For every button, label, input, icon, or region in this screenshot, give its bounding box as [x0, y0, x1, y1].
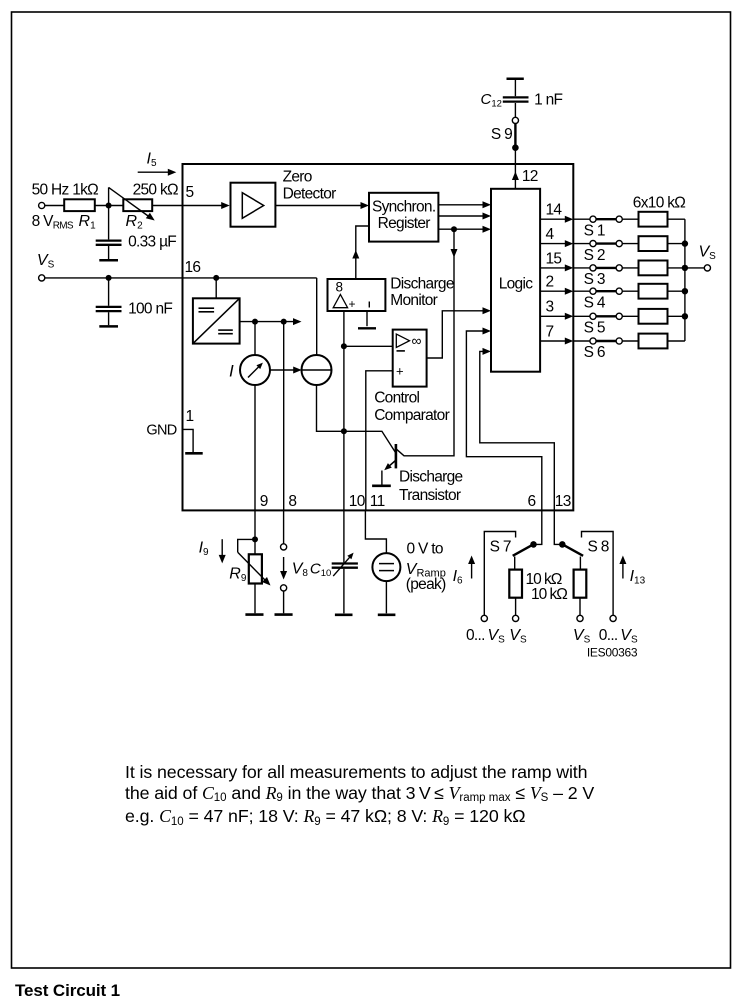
svg-text:I: I — [229, 362, 234, 381]
svg-text:7: 7 — [546, 323, 554, 340]
svg-text:13: 13 — [555, 493, 571, 510]
svg-text:Control: Control — [374, 389, 419, 406]
svg-text:S 1: S 1 — [584, 222, 605, 239]
svg-text:C12: C12 — [481, 91, 502, 110]
svg-text:S 6: S 6 — [584, 344, 605, 361]
svg-text:VS: VS — [620, 627, 638, 646]
svg-text:R1: R1 — [79, 213, 97, 232]
svg-text:Register: Register — [378, 215, 431, 232]
svg-text:(peak): (peak) — [406, 576, 446, 593]
svg-text:1: 1 — [186, 408, 194, 425]
svg-text:C10: C10 — [310, 561, 331, 580]
svg-text:100 nF: 100 nF — [128, 301, 172, 318]
svg-text:2: 2 — [546, 274, 554, 291]
svg-text:Monitor: Monitor — [390, 292, 437, 309]
svg-text:5: 5 — [186, 184, 194, 201]
svg-text:8 VRMS: 8 VRMS — [32, 213, 74, 232]
svg-text:Discharge: Discharge — [390, 276, 454, 293]
svg-text:9: 9 — [260, 493, 268, 510]
svg-text:S 5: S 5 — [584, 320, 605, 337]
svg-text:VS: VS — [37, 252, 55, 271]
svg-text:4: 4 — [546, 226, 555, 243]
svg-text:0.33 µF: 0.33 µF — [128, 234, 176, 251]
svg-text:I6: I6 — [453, 568, 463, 587]
svg-text:S 8: S 8 — [588, 539, 609, 556]
svg-text:0 V to: 0 V to — [407, 541, 443, 558]
svg-text:0...: 0... — [466, 627, 485, 644]
svg-text:0...: 0... — [599, 627, 618, 644]
svg-text:I9: I9 — [199, 540, 209, 559]
svg-text:S 4: S 4 — [584, 294, 606, 311]
svg-text:14: 14 — [546, 202, 563, 219]
svg-text:I5: I5 — [147, 151, 157, 170]
svg-text:1 nF: 1 nF — [534, 92, 562, 109]
svg-text:Comparator: Comparator — [374, 407, 449, 424]
svg-text:Discharge: Discharge — [399, 469, 463, 486]
svg-text:10: 10 — [349, 493, 366, 510]
svg-text:S 3: S 3 — [584, 271, 605, 288]
svg-text:S 9: S 9 — [491, 126, 512, 143]
svg-text:6: 6 — [528, 493, 536, 510]
svg-text:S 2: S 2 — [584, 247, 605, 264]
svg-text:+: + — [396, 364, 403, 379]
svg-text:∞: ∞ — [412, 333, 422, 349]
svg-text:VS: VS — [509, 627, 527, 646]
svg-text:VS: VS — [573, 627, 591, 646]
svg-text:Synchron.: Synchron. — [372, 198, 436, 215]
svg-text:Zero: Zero — [283, 169, 312, 186]
svg-text:11: 11 — [370, 493, 385, 510]
svg-text:16: 16 — [185, 259, 201, 276]
svg-text:10 kΩ: 10 kΩ — [531, 586, 567, 603]
svg-text:50 Hz 1kΩ: 50 Hz 1kΩ — [32, 182, 99, 199]
svg-text:IES00363: IES00363 — [587, 646, 638, 660]
svg-text:GND: GND — [146, 423, 176, 439]
svg-text:+: + — [349, 297, 356, 311]
svg-text:Logic: Logic — [499, 276, 534, 293]
svg-text:250 kΩ: 250 kΩ — [133, 182, 178, 199]
svg-text:15: 15 — [546, 250, 562, 267]
svg-text:I13: I13 — [630, 568, 646, 587]
svg-text:V8: V8 — [292, 561, 309, 580]
svg-text:R2: R2 — [126, 213, 144, 232]
svg-text:6x10 kΩ: 6x10 kΩ — [633, 194, 685, 211]
svg-text:Transistor: Transistor — [399, 487, 461, 504]
svg-text:3: 3 — [546, 299, 554, 316]
svg-text:Detector: Detector — [283, 186, 337, 203]
svg-text:12: 12 — [522, 168, 538, 185]
svg-text:VS: VS — [488, 627, 506, 646]
svg-text:R9: R9 — [229, 566, 247, 585]
svg-text:S 7: S 7 — [490, 539, 511, 556]
svg-text:8: 8 — [336, 280, 343, 295]
svg-text:8: 8 — [288, 493, 296, 510]
svg-text:VS: VS — [699, 244, 717, 263]
